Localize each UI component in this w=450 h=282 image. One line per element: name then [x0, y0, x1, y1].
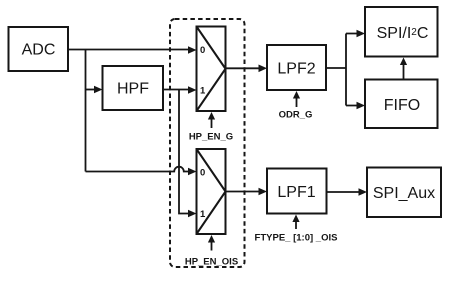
svg-text:HP_EN_OIS: HP_EN_OIS: [185, 257, 238, 268]
svg-text:ADC: ADC: [22, 42, 56, 59]
svg-text:FTYPE_ [1:0] _OIS: FTYPE_ [1:0] _OIS: [255, 232, 338, 243]
svg-text:SPI/I2C: SPI/I2C: [377, 25, 429, 42]
svg-text:0: 0: [200, 168, 205, 179]
svg-text:0: 0: [200, 45, 205, 56]
svg-text:LPF1: LPF1: [277, 184, 315, 201]
svg-text:FIFO: FIFO: [384, 97, 420, 114]
svg-text:1: 1: [200, 209, 206, 220]
svg-text:SPI_Aux: SPI_Aux: [373, 185, 435, 202]
svg-text:HP_EN_G: HP_EN_G: [189, 132, 233, 143]
svg-text:1: 1: [200, 86, 206, 97]
svg-text:HPF: HPF: [117, 81, 149, 98]
svg-text:ODR_G: ODR_G: [279, 110, 313, 121]
svg-text:LPF2: LPF2: [277, 60, 315, 77]
